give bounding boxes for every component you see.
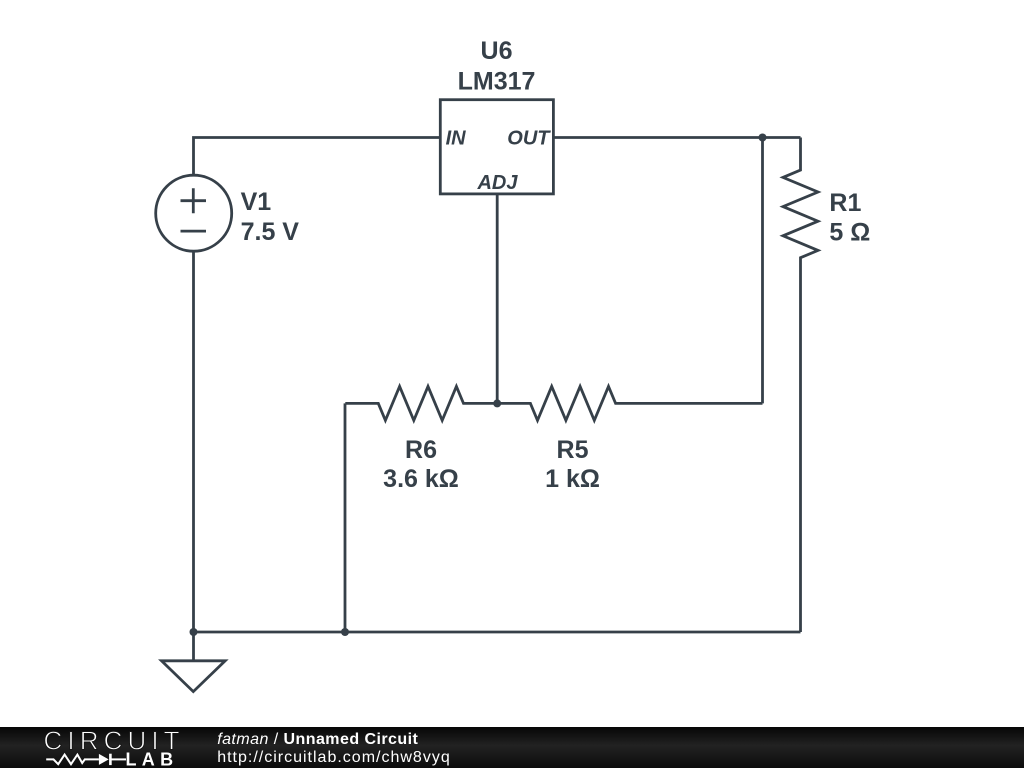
svg-text:ADJ: ADJ	[476, 172, 518, 194]
svg-text:R1: R1	[829, 189, 861, 217]
V1 plus mark	[181, 188, 207, 213]
svg-text:3.6 kΩ: 3.6 kΩ	[383, 465, 459, 493]
svg-text:LM317: LM317	[458, 67, 536, 95]
ground	[162, 661, 226, 692]
voltage source V1	[156, 175, 232, 251]
svg-text:5 Ω: 5 Ω	[829, 218, 870, 246]
regulator U6 LM317 body	[440, 100, 553, 194]
CircuitLab logo resistor-diode glyph	[46, 754, 126, 765]
svg-text:OUT: OUT	[507, 128, 551, 150]
wire V1 top to IN pin	[194, 138, 441, 176]
svg-text:U6: U6	[481, 37, 513, 65]
wire R6 left leg	[344, 403, 347, 632]
wire ground stub	[192, 632, 195, 661]
wire R5 right to top junction	[761, 138, 764, 404]
svg-text:7.5 V: 7.5 V	[241, 218, 300, 246]
V1 minus mark	[181, 230, 207, 233]
wire OUT pin to top-right corner	[553, 136, 800, 139]
svg-text:V1: V1	[241, 188, 272, 216]
resistor R6	[345, 386, 497, 420]
resistor R5	[497, 386, 762, 420]
footer bar	[0, 727, 1024, 768]
svg-text:fatman / Unnamed Circuit: fatman / Unnamed Circuit	[217, 731, 418, 748]
svg-text:LAB: LAB	[126, 750, 179, 768]
wire ADJ pin down to node	[496, 194, 499, 403]
svg-text:IN: IN	[446, 128, 467, 150]
junction node ground rail R6	[341, 628, 349, 636]
svg-text:R5: R5	[557, 436, 589, 464]
wire V1 bottom to ground rail	[192, 251, 195, 632]
junction node at OUT rail	[759, 134, 767, 142]
svg-text:1 kΩ: 1 kΩ	[545, 465, 600, 493]
resistor R1	[783, 138, 818, 633]
svg-text:http://circuitlab.com/chw8vyq: http://circuitlab.com/chw8vyq	[217, 749, 451, 766]
junction node ground rail left	[190, 628, 198, 636]
wire bottom rail	[194, 631, 801, 634]
junction node ADJ/R6/R5	[493, 399, 501, 407]
svg-text:R6: R6	[405, 436, 437, 464]
